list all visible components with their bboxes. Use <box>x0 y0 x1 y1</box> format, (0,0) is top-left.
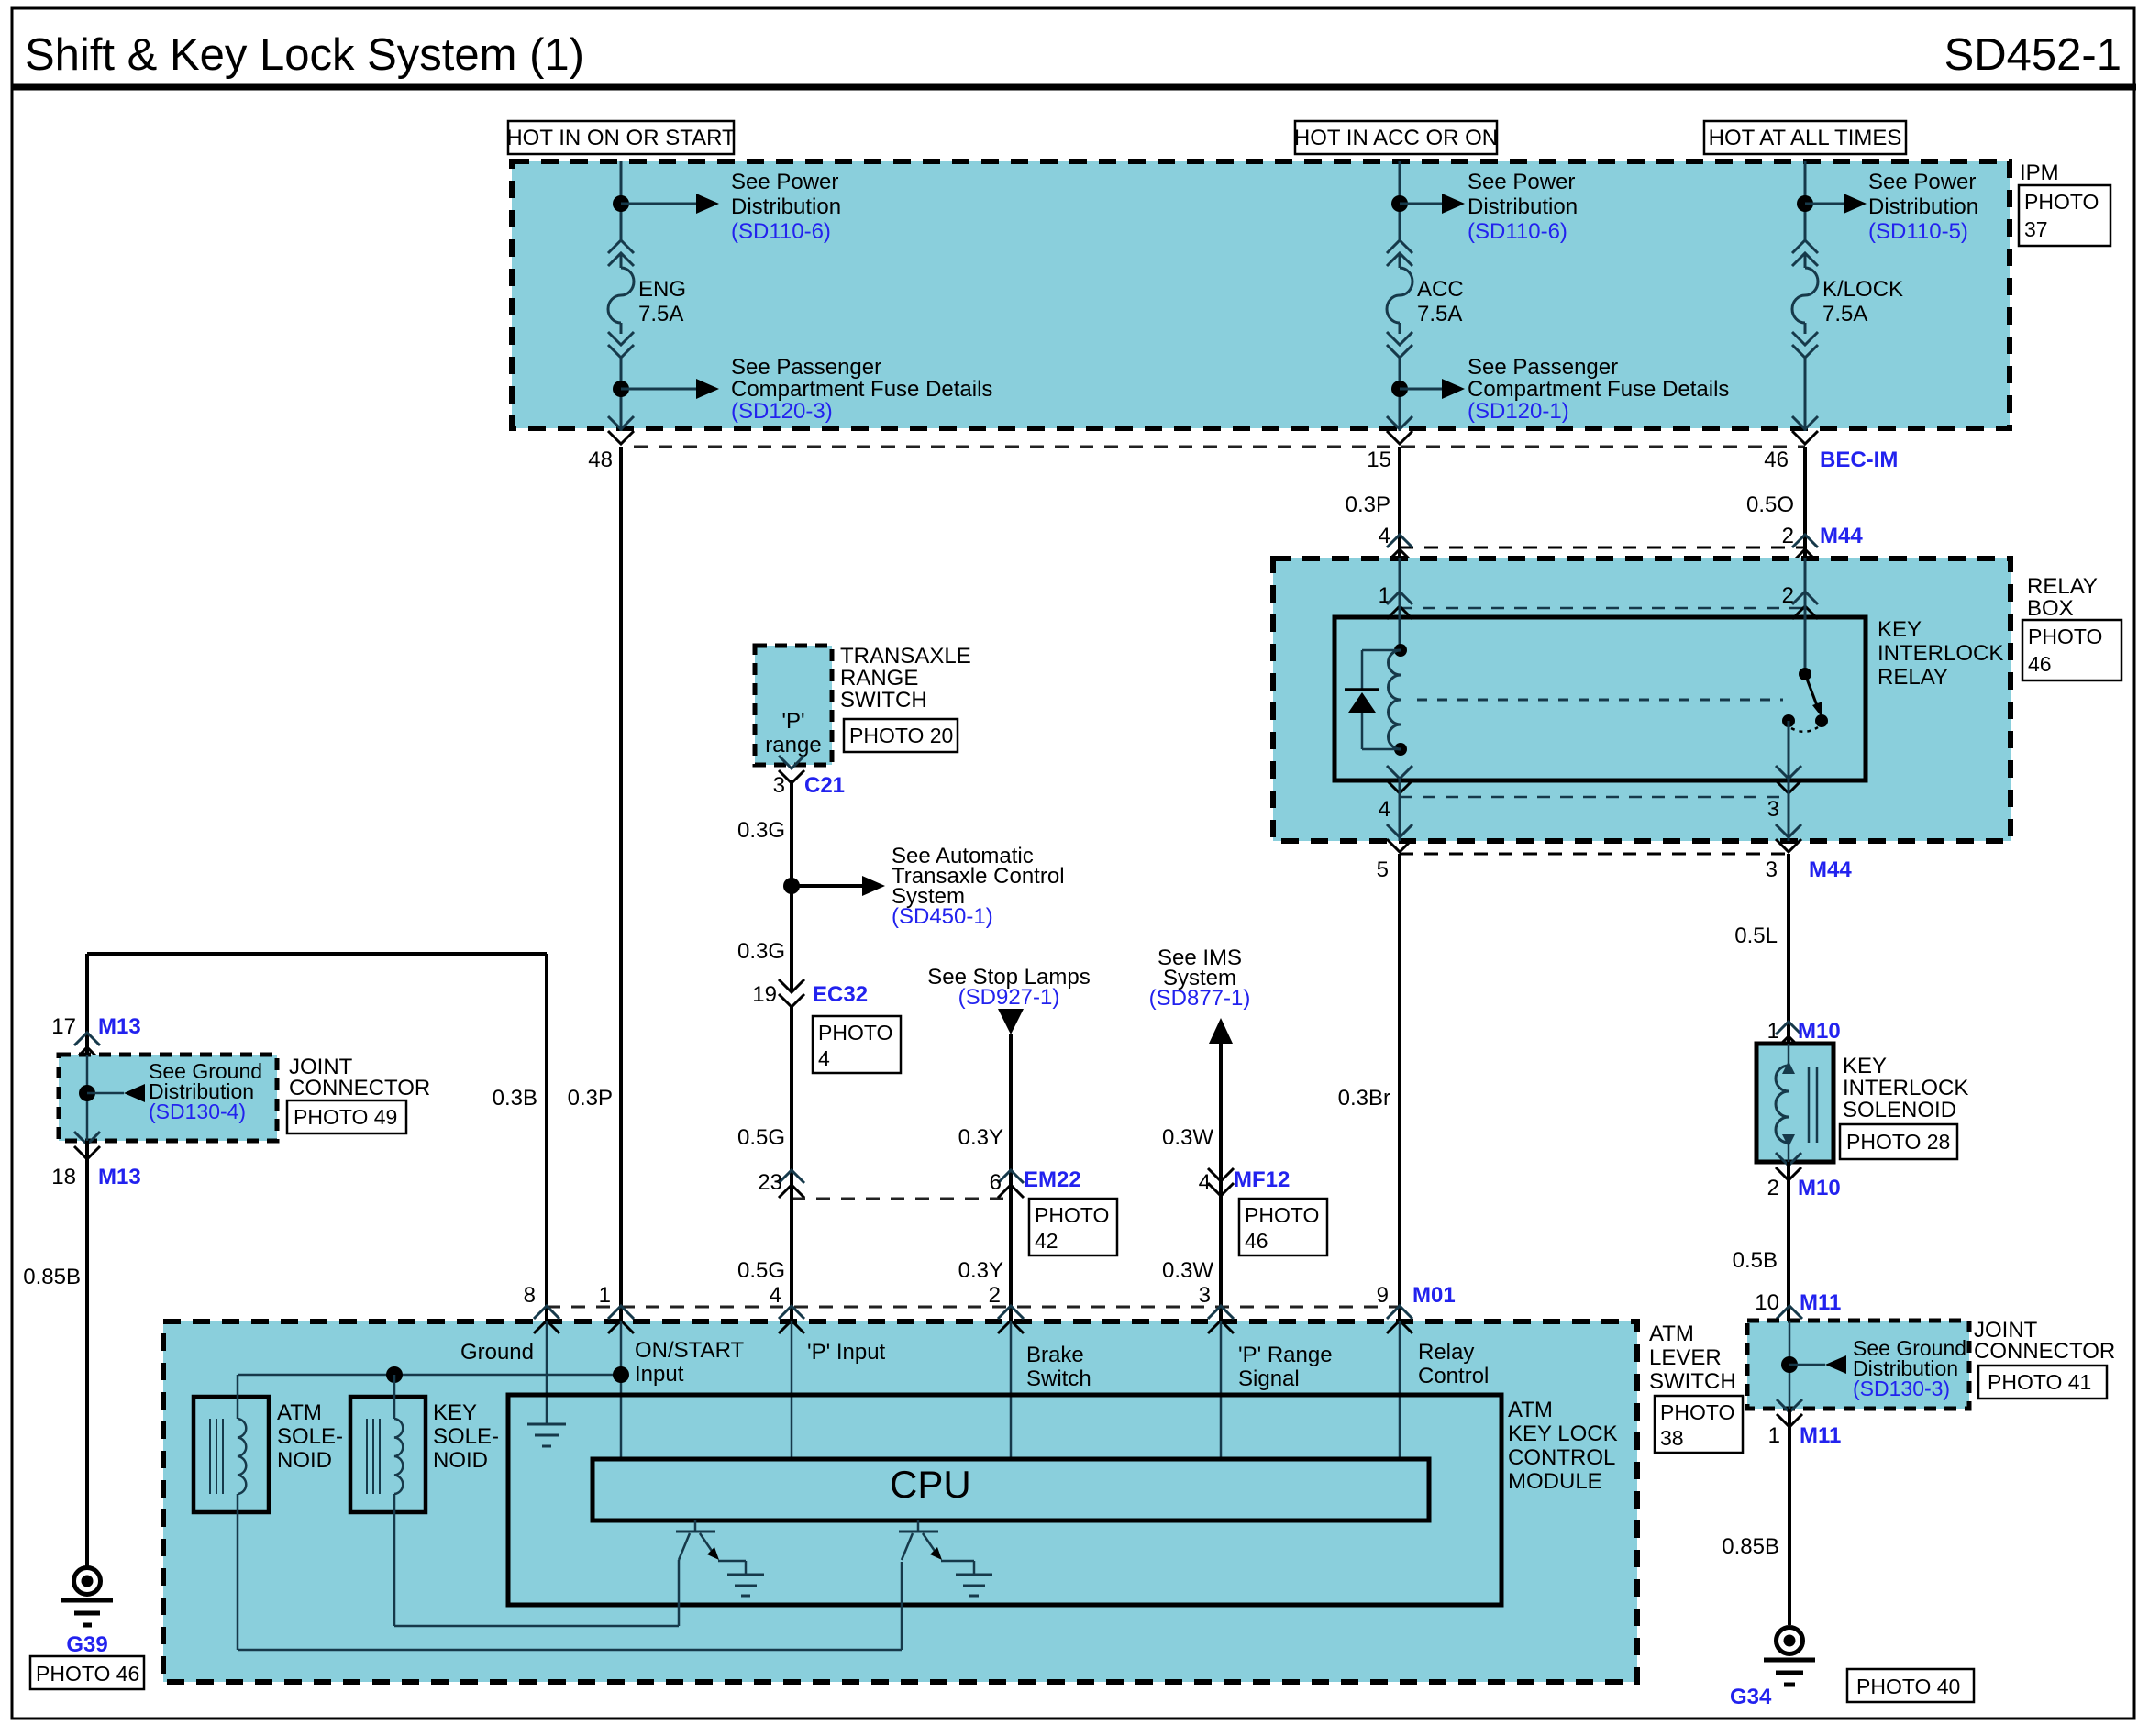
svg-text:4: 4 <box>1199 1170 1211 1195</box>
svg-text:LEVER: LEVER <box>1649 1345 1722 1370</box>
wire relay switch out <box>1788 721 1790 780</box>
svg-text:CONNECTOR: CONNECTOR <box>289 1076 430 1100</box>
node junction transaxle <box>783 878 800 894</box>
text see ground distribution SD130-3 <box>1853 1336 1966 1400</box>
arrow from stop lamps <box>998 1009 1024 1034</box>
relay exit chevrons pin3 <box>1776 766 1801 793</box>
pin number 18 M13 <box>51 1165 76 1189</box>
svg-text:4: 4 <box>1379 797 1390 822</box>
svg-text:3: 3 <box>1766 857 1778 882</box>
svg-text:MF12: MF12 <box>1234 1167 1290 1192</box>
module connector dashed line <box>547 1306 1400 1309</box>
arrow see power distribution col2 <box>1400 194 1465 214</box>
wire label 0.3B <box>493 1086 537 1111</box>
connector name M10 top <box>1798 1019 1841 1044</box>
svg-text:(SD120-3): (SD120-3) <box>731 399 833 424</box>
svg-text:PHOTO: PHOTO <box>1660 1400 1734 1424</box>
svg-text:KEY LOCK: KEY LOCK <box>1508 1421 1618 1446</box>
relay pin 4 number bottom <box>1379 797 1390 822</box>
ATM solenoid label <box>277 1400 343 1473</box>
text see IMS system SD877-1 <box>1149 945 1251 1011</box>
wire label 0.5O <box>1746 492 1794 517</box>
transistor Q1 ground <box>727 1575 764 1596</box>
svg-text:19: 19 <box>752 982 777 1007</box>
pin number 1 M10 <box>1767 1019 1779 1044</box>
svg-text:2: 2 <box>1767 1176 1779 1200</box>
connector MF12 photo 46 <box>1239 1199 1327 1255</box>
svg-text:HOT AT ALL TIMES: HOT AT ALL TIMES <box>1709 126 1902 150</box>
svg-text:Distribution: Distribution <box>731 194 841 219</box>
joint connector left label <box>289 1055 430 1100</box>
ATM lever switch label <box>1649 1321 1736 1394</box>
svg-text:G39: G39 <box>66 1632 107 1657</box>
joint connector right photo 41 <box>1978 1366 2107 1399</box>
svg-text:ACC: ACC <box>1417 277 1464 302</box>
key interlock relay body <box>1335 617 1866 780</box>
svg-text:7.5A: 7.5A <box>1822 302 1867 326</box>
relay pin 3 number bottom <box>1767 797 1779 822</box>
svg-text:Brake: Brake <box>1026 1343 1084 1367</box>
wire 0.85B right <box>1788 1409 1791 1625</box>
ground G39 photo 46 <box>30 1656 144 1689</box>
svg-text:7.5A: 7.5A <box>1417 302 1462 326</box>
svg-text:Control: Control <box>1418 1364 1489 1388</box>
connector pin 46 chevrons <box>1792 416 1818 444</box>
wire 0.3Br relay control <box>1398 854 1401 1321</box>
pin number 10 M11 <box>1755 1290 1779 1315</box>
svg-text:ATM: ATM <box>277 1400 322 1425</box>
svg-text:38: 38 <box>1660 1426 1684 1450</box>
transaxle range switch text <box>765 709 821 757</box>
text see power distribution SD110-6 col2 <box>1468 170 1578 244</box>
connector EC32 chevrons <box>779 979 804 1007</box>
wire label 0.3Br <box>1338 1086 1390 1111</box>
solenoid exit chevrons M10-2 <box>1776 1153 1801 1180</box>
svg-text:EC32: EC32 <box>813 982 868 1007</box>
wire module pin9 to CPU <box>1399 1321 1401 1459</box>
svg-text:INTERLOCK: INTERLOCK <box>1843 1076 1968 1100</box>
svg-text:See Passenger: See Passenger <box>731 355 881 380</box>
connector name M44 bottom <box>1809 857 1852 882</box>
node junction dot col2 bottom <box>1391 381 1408 397</box>
svg-text:0.5O: 0.5O <box>1746 492 1794 517</box>
svg-text:0.3W: 0.3W <box>1162 1125 1213 1150</box>
fuse ENG 7.5A <box>608 240 686 358</box>
pin number 2 M10 <box>1767 1176 1779 1200</box>
svg-text:Ground: Ground <box>460 1340 534 1365</box>
joint connector M13 chevrons top <box>74 1033 100 1060</box>
wire KLOCK fuse feed <box>1804 161 1807 431</box>
svg-text:Shift & Key Lock System (1): Shift & Key Lock System (1) <box>25 30 584 80</box>
wire 0.3W <box>1219 1042 1223 1321</box>
svg-text:TRANSAXLE: TRANSAXLE <box>840 644 971 669</box>
transistor Q2 <box>899 1520 974 1575</box>
svg-text:46: 46 <box>1764 448 1789 472</box>
svg-text:M13: M13 <box>98 1165 141 1189</box>
fuse ACC 7.5A <box>1387 240 1464 358</box>
svg-text:0.5G: 0.5G <box>737 1258 785 1283</box>
wire 0.3P on-start <box>619 447 623 1321</box>
wire label 0.3W upper <box>1162 1125 1213 1150</box>
svg-text:3: 3 <box>773 773 785 798</box>
wire module pin4 to CPU <box>791 1321 793 1459</box>
relay entry chevrons pin2 <box>1792 592 1818 619</box>
connector chevrons M44 left <box>1387 535 1412 562</box>
wire label 0.5B <box>1733 1248 1778 1273</box>
svg-text:RANGE: RANGE <box>840 666 918 691</box>
svg-text:PHOTO: PHOTO <box>818 1021 892 1045</box>
relay box label <box>2027 574 2098 621</box>
connector chevrons M44 right <box>1792 535 1818 562</box>
wire 0.5O from fuse 46 <box>1803 447 1807 558</box>
svg-text:1: 1 <box>1768 1423 1780 1448</box>
wire label 0.3G lower <box>737 939 785 964</box>
ground G34 photo 40 <box>1847 1669 1974 1702</box>
svg-text:2: 2 <box>1782 524 1794 548</box>
svg-text:PHOTO 20: PHOTO 20 <box>849 724 953 747</box>
connector name M01 <box>1412 1283 1456 1308</box>
svg-text:KEY: KEY <box>1843 1054 1887 1078</box>
svg-text:(SD110-5): (SD110-5) <box>1868 219 1968 244</box>
wire 0.5L <box>1787 854 1790 1044</box>
wire label 0.85B right <box>1722 1534 1779 1559</box>
svg-text:M13: M13 <box>98 1014 141 1039</box>
wire 0.5G upper <box>790 1007 793 1185</box>
svg-text:(SD130-3): (SD130-3) <box>1853 1377 1950 1400</box>
text see power distribution SD110-5 <box>1868 170 1978 244</box>
svg-text:37: 37 <box>2024 217 2048 241</box>
label HOT IN ON OR START <box>506 121 736 154</box>
svg-text:4: 4 <box>818 1046 830 1070</box>
connector line M44 top <box>1400 547 1805 549</box>
connector name EM22 <box>1024 1167 1081 1192</box>
svg-text:0.3Y: 0.3Y <box>958 1258 1003 1283</box>
svg-text:Input: Input <box>635 1362 684 1387</box>
text see stop lamps SD927-1 <box>927 965 1090 1010</box>
svg-text:0.3B: 0.3B <box>493 1086 537 1111</box>
connector EM22 photo 42 <box>1029 1199 1117 1255</box>
wire module pin2 to CPU <box>1010 1321 1013 1459</box>
pin number 17 M13 <box>51 1014 76 1039</box>
wire relay switch feed <box>1804 558 1807 674</box>
svg-text:ENG: ENG <box>638 277 686 302</box>
key interlock solenoid photo 28 <box>1840 1124 1957 1159</box>
svg-text:(SD120-1): (SD120-1) <box>1468 399 1569 424</box>
wire ENG fuse feed <box>620 161 623 431</box>
wire 0.3P from fuse 15 <box>1398 447 1401 558</box>
svg-text:0.5G: 0.5G <box>737 1125 785 1150</box>
ground name G34 <box>1730 1685 1772 1709</box>
module pin labels <box>460 1338 1489 1391</box>
key interlock solenoid box <box>1756 1044 1833 1162</box>
label HOT IN ACC OR ON <box>1294 121 1498 154</box>
svg-text:M44: M44 <box>1820 524 1863 548</box>
text see power distribution SD110-6 <box>731 170 841 244</box>
IPM fuse box <box>512 161 2010 428</box>
connector name M44 top <box>1820 524 1863 548</box>
connector name BEC-IM <box>1820 448 1898 472</box>
svg-text:0.3P: 0.3P <box>1346 492 1390 517</box>
svg-text:(SD130-4): (SD130-4) <box>149 1100 246 1123</box>
svg-text:M11: M11 <box>1800 1290 1841 1315</box>
KEY solenoid core lines <box>367 1419 380 1494</box>
joint connector M11 chevrons bottom <box>1777 1399 1802 1427</box>
page number SD452-1 <box>1944 30 2121 80</box>
key interlock relay label <box>1878 617 2003 690</box>
node dot key solenoid feed <box>386 1366 403 1383</box>
svg-text:Relay: Relay <box>1418 1340 1474 1365</box>
pin number 4 MF12 <box>1199 1170 1211 1195</box>
relay switch <box>1782 668 1828 732</box>
relay coil <box>1389 644 1408 756</box>
wire module pin3 to CPU <box>1220 1321 1223 1459</box>
svg-text:ON/START: ON/START <box>635 1338 744 1363</box>
wire label 0.3P col2 <box>1346 492 1390 517</box>
module pin numbers <box>524 1283 1389 1308</box>
svg-text:See Passenger: See Passenger <box>1468 355 1618 380</box>
svg-text:'P': 'P' <box>781 709 804 734</box>
svg-text:(SD110-6): (SD110-6) <box>1468 219 1567 244</box>
svg-text:15: 15 <box>1367 448 1391 472</box>
svg-text:C21: C21 <box>804 773 845 798</box>
joint connector box SD130-4 <box>59 1055 277 1141</box>
svg-text:6: 6 <box>990 1170 1002 1195</box>
svg-text:INTERLOCK: INTERLOCK <box>1878 641 2003 666</box>
transistor Q1 <box>676 1520 746 1575</box>
joint connector M11 node dot <box>1781 1356 1798 1373</box>
CPU box <box>593 1459 1429 1520</box>
svg-text:5: 5 <box>1377 857 1389 882</box>
relay connector dashed bottom <box>1400 796 1789 799</box>
joint connector M13 chevrons bottom <box>74 1132 100 1159</box>
KEY solenoid box <box>350 1397 426 1512</box>
pin number 48 <box>588 448 613 472</box>
connector name M13 bottom <box>98 1165 141 1189</box>
pin number 3 C21 <box>773 773 785 798</box>
svg-text:NOID: NOID <box>433 1448 488 1473</box>
text see passenger compartment SD120-3 <box>731 355 992 424</box>
svg-text:CONNECTOR: CONNECTOR <box>1974 1339 2115 1364</box>
svg-text:0.5B: 0.5B <box>1733 1248 1778 1273</box>
wire label 0.5G upper <box>737 1125 785 1150</box>
relay outer exit chevrons left <box>1387 824 1412 852</box>
pin number 6 <box>990 1170 1002 1195</box>
wire label 0.85B left <box>23 1265 81 1289</box>
svg-text:range: range <box>765 733 821 757</box>
svg-text:HOT IN ACC OR ON: HOT IN ACC OR ON <box>1294 126 1498 150</box>
joint connector left photo 49 <box>287 1100 406 1133</box>
svg-text:PHOTO 41: PHOTO 41 <box>1988 1370 2091 1394</box>
svg-text:(SD110-6): (SD110-6) <box>731 219 831 244</box>
wire ATM solenoid to transistor Q2 <box>238 1494 902 1650</box>
node junction dot col2 top <box>1391 195 1408 212</box>
wire label 0.3G upper <box>737 818 785 843</box>
module internal ground symbol <box>527 1424 566 1446</box>
svg-text:SOLE-: SOLE- <box>277 1424 343 1449</box>
ground G34 <box>1764 1628 1815 1686</box>
node junction dot col3 top <box>1797 195 1813 212</box>
svg-text:Distribution: Distribution <box>1868 194 1978 219</box>
pin number 19 <box>752 982 777 1007</box>
transaxle switch exit chevrons C21 <box>779 756 804 783</box>
svg-text:0.85B: 0.85B <box>23 1265 81 1289</box>
svg-text:0.3Br: 0.3Br <box>1338 1086 1390 1111</box>
wire module distribution horizontal <box>238 1374 621 1377</box>
svg-text:(SD877-1): (SD877-1) <box>1149 986 1251 1011</box>
key interlock solenoid label <box>1843 1054 1968 1122</box>
transaxle range switch photo 20 <box>844 719 958 752</box>
svg-text:M10: M10 <box>1798 1019 1841 1044</box>
svg-text:0.5L: 0.5L <box>1734 923 1778 948</box>
svg-text:MODULE: MODULE <box>1508 1469 1602 1494</box>
wire 0.3Y <box>1009 1034 1013 1321</box>
relay box dashed enclosure <box>1273 558 2011 841</box>
connector name C21 <box>804 773 845 798</box>
module pin chevrons <box>534 1306 1412 1333</box>
module inner unit box <box>508 1395 1501 1605</box>
svg-text:NOID: NOID <box>277 1448 332 1473</box>
transistor Q2 ground <box>956 1575 992 1596</box>
svg-text:(SD927-1): (SD927-1) <box>958 985 1060 1010</box>
svg-text:ATM: ATM <box>1508 1398 1553 1422</box>
svg-text:PHOTO 40: PHOTO 40 <box>1856 1675 1960 1698</box>
svg-text:PHOTO: PHOTO <box>2028 625 2102 648</box>
svg-text:SWITCH: SWITCH <box>1649 1369 1736 1394</box>
relay exit chevrons pin4 <box>1387 766 1412 793</box>
svg-text:Signal: Signal <box>1238 1366 1300 1391</box>
text see ground distribution SD130-4 <box>149 1059 262 1123</box>
relay connector dashed top <box>1400 607 1805 610</box>
svg-text:8: 8 <box>524 1283 536 1308</box>
svg-text:PHOTO: PHOTO <box>2024 190 2099 214</box>
wire KEY solenoid to transistor Q1 <box>394 1494 679 1626</box>
ATM solenoid box <box>194 1397 269 1512</box>
wire through joint connector M13 <box>86 1055 89 1141</box>
svg-text:SD452-1: SD452-1 <box>1944 30 2121 80</box>
svg-text:0.3Y: 0.3Y <box>958 1125 1003 1150</box>
pin number 2 M44 top <box>1782 524 1794 548</box>
arrow see power distribution col3 <box>1805 194 1867 214</box>
pin number 1 M11 <box>1768 1423 1780 1448</box>
pin number 23 <box>758 1170 782 1195</box>
connector name MF12 <box>1234 1167 1290 1192</box>
arrow see passenger fuse details col2 <box>1400 379 1465 399</box>
svg-text:0.85B: 0.85B <box>1722 1534 1779 1559</box>
svg-text:17: 17 <box>51 1014 76 1039</box>
svg-text:48: 48 <box>588 448 613 472</box>
connector line M44 bottom <box>1400 853 1789 856</box>
connector line BEC-IM <box>634 446 1805 448</box>
svg-text:EM22: EM22 <box>1024 1167 1081 1192</box>
wire 0.3G upper <box>790 780 793 992</box>
svg-text:23: 23 <box>758 1170 782 1195</box>
svg-text:Distribution: Distribution <box>1468 194 1578 219</box>
relay outer exit chevrons right <box>1776 824 1801 852</box>
svg-text:G34: G34 <box>1730 1685 1772 1709</box>
svg-text:SOLE-: SOLE- <box>433 1424 499 1449</box>
connector pin 15 chevrons <box>1387 416 1412 444</box>
wire label 0.5L <box>1734 923 1778 948</box>
svg-text:Compartment Fuse Details: Compartment Fuse Details <box>1468 377 1729 402</box>
svg-text:18: 18 <box>51 1165 76 1189</box>
wire label 0.3W lower <box>1162 1258 1213 1283</box>
svg-text:0.3P: 0.3P <box>568 1086 613 1111</box>
diode D1 <box>1345 650 1401 749</box>
connector name M13 top <box>98 1014 141 1039</box>
svg-text:KEY: KEY <box>433 1400 477 1425</box>
svg-text:7.5A: 7.5A <box>638 302 683 326</box>
pin number 3 M44 bottom <box>1766 857 1778 882</box>
svg-text:2: 2 <box>989 1283 1001 1308</box>
svg-text:'P' Input: 'P' Input <box>807 1340 886 1365</box>
joint connector M11 arrow <box>1789 1355 1846 1374</box>
CPU label <box>890 1463 971 1506</box>
wire relay coil feed <box>1399 558 1401 650</box>
svg-text:PHOTO 49: PHOTO 49 <box>294 1105 397 1129</box>
wire module ground pin8 <box>546 1321 548 1424</box>
svg-text:9: 9 <box>1377 1283 1389 1308</box>
wire label 0.3P left <box>568 1086 613 1111</box>
svg-text:ATM: ATM <box>1649 1321 1694 1346</box>
svg-text:RELAY: RELAY <box>2027 574 2098 599</box>
arrow to IMS system <box>1209 1018 1233 1044</box>
svg-text:M44: M44 <box>1809 857 1852 882</box>
wire ACC fuse feed <box>1399 161 1401 431</box>
svg-text:CONTROL: CONTROL <box>1508 1445 1615 1470</box>
wire 0.85B left <box>85 1141 89 1568</box>
arrow see automatic transaxle <box>792 876 885 896</box>
joint connector M13 arrow <box>87 1084 145 1102</box>
svg-text:0.3G: 0.3G <box>737 939 785 964</box>
relay actuation dashed link <box>1417 699 1783 702</box>
svg-text:CPU: CPU <box>890 1463 971 1506</box>
solenoid entry chevrons M10-1 <box>1776 1022 1801 1049</box>
connector name M10 bottom <box>1798 1176 1841 1200</box>
text see passenger compartment SD120-1 <box>1468 355 1729 424</box>
ATM solenoid core lines <box>210 1419 223 1494</box>
connector pin 48 chevrons <box>608 416 634 444</box>
svg-text:M10: M10 <box>1798 1176 1841 1200</box>
ATM key lock control module label <box>1508 1398 1618 1494</box>
KEY solenoid coil <box>394 1375 403 1494</box>
svg-text:IPM: IPM <box>2020 160 2059 185</box>
relay pin 1 number <box>1379 583 1390 608</box>
ATM solenoid coil <box>238 1375 246 1494</box>
connector line EM22 <box>792 1198 1011 1200</box>
svg-text:4: 4 <box>770 1283 781 1308</box>
node junction dot col1 top <box>613 195 629 212</box>
joint connector M13 node dot <box>79 1085 95 1101</box>
svg-text:1: 1 <box>599 1283 611 1308</box>
svg-text:10: 10 <box>1755 1290 1779 1315</box>
svg-text:42: 42 <box>1035 1229 1058 1253</box>
svg-text:RELAY: RELAY <box>1878 665 1948 690</box>
connector name M11 bottom <box>1800 1423 1841 1448</box>
svg-text:46: 46 <box>1245 1229 1268 1253</box>
label HOT AT ALL TIMES <box>1704 121 1906 154</box>
ATM lever switch photo 38 <box>1655 1396 1743 1453</box>
wire through joint connector M11 <box>1789 1321 1791 1409</box>
svg-text:KEY: KEY <box>1878 617 1922 642</box>
arrow see power distribution col1 <box>621 194 719 214</box>
key interlock solenoid coil <box>1776 1044 1817 1162</box>
title text <box>25 30 584 80</box>
joint connector M11 chevrons top <box>1777 1306 1802 1333</box>
svg-text:BEC-IM: BEC-IM <box>1820 448 1898 472</box>
ground G39 <box>61 1568 113 1626</box>
svg-text:1: 1 <box>1767 1019 1779 1044</box>
svg-text:3: 3 <box>1199 1283 1211 1308</box>
